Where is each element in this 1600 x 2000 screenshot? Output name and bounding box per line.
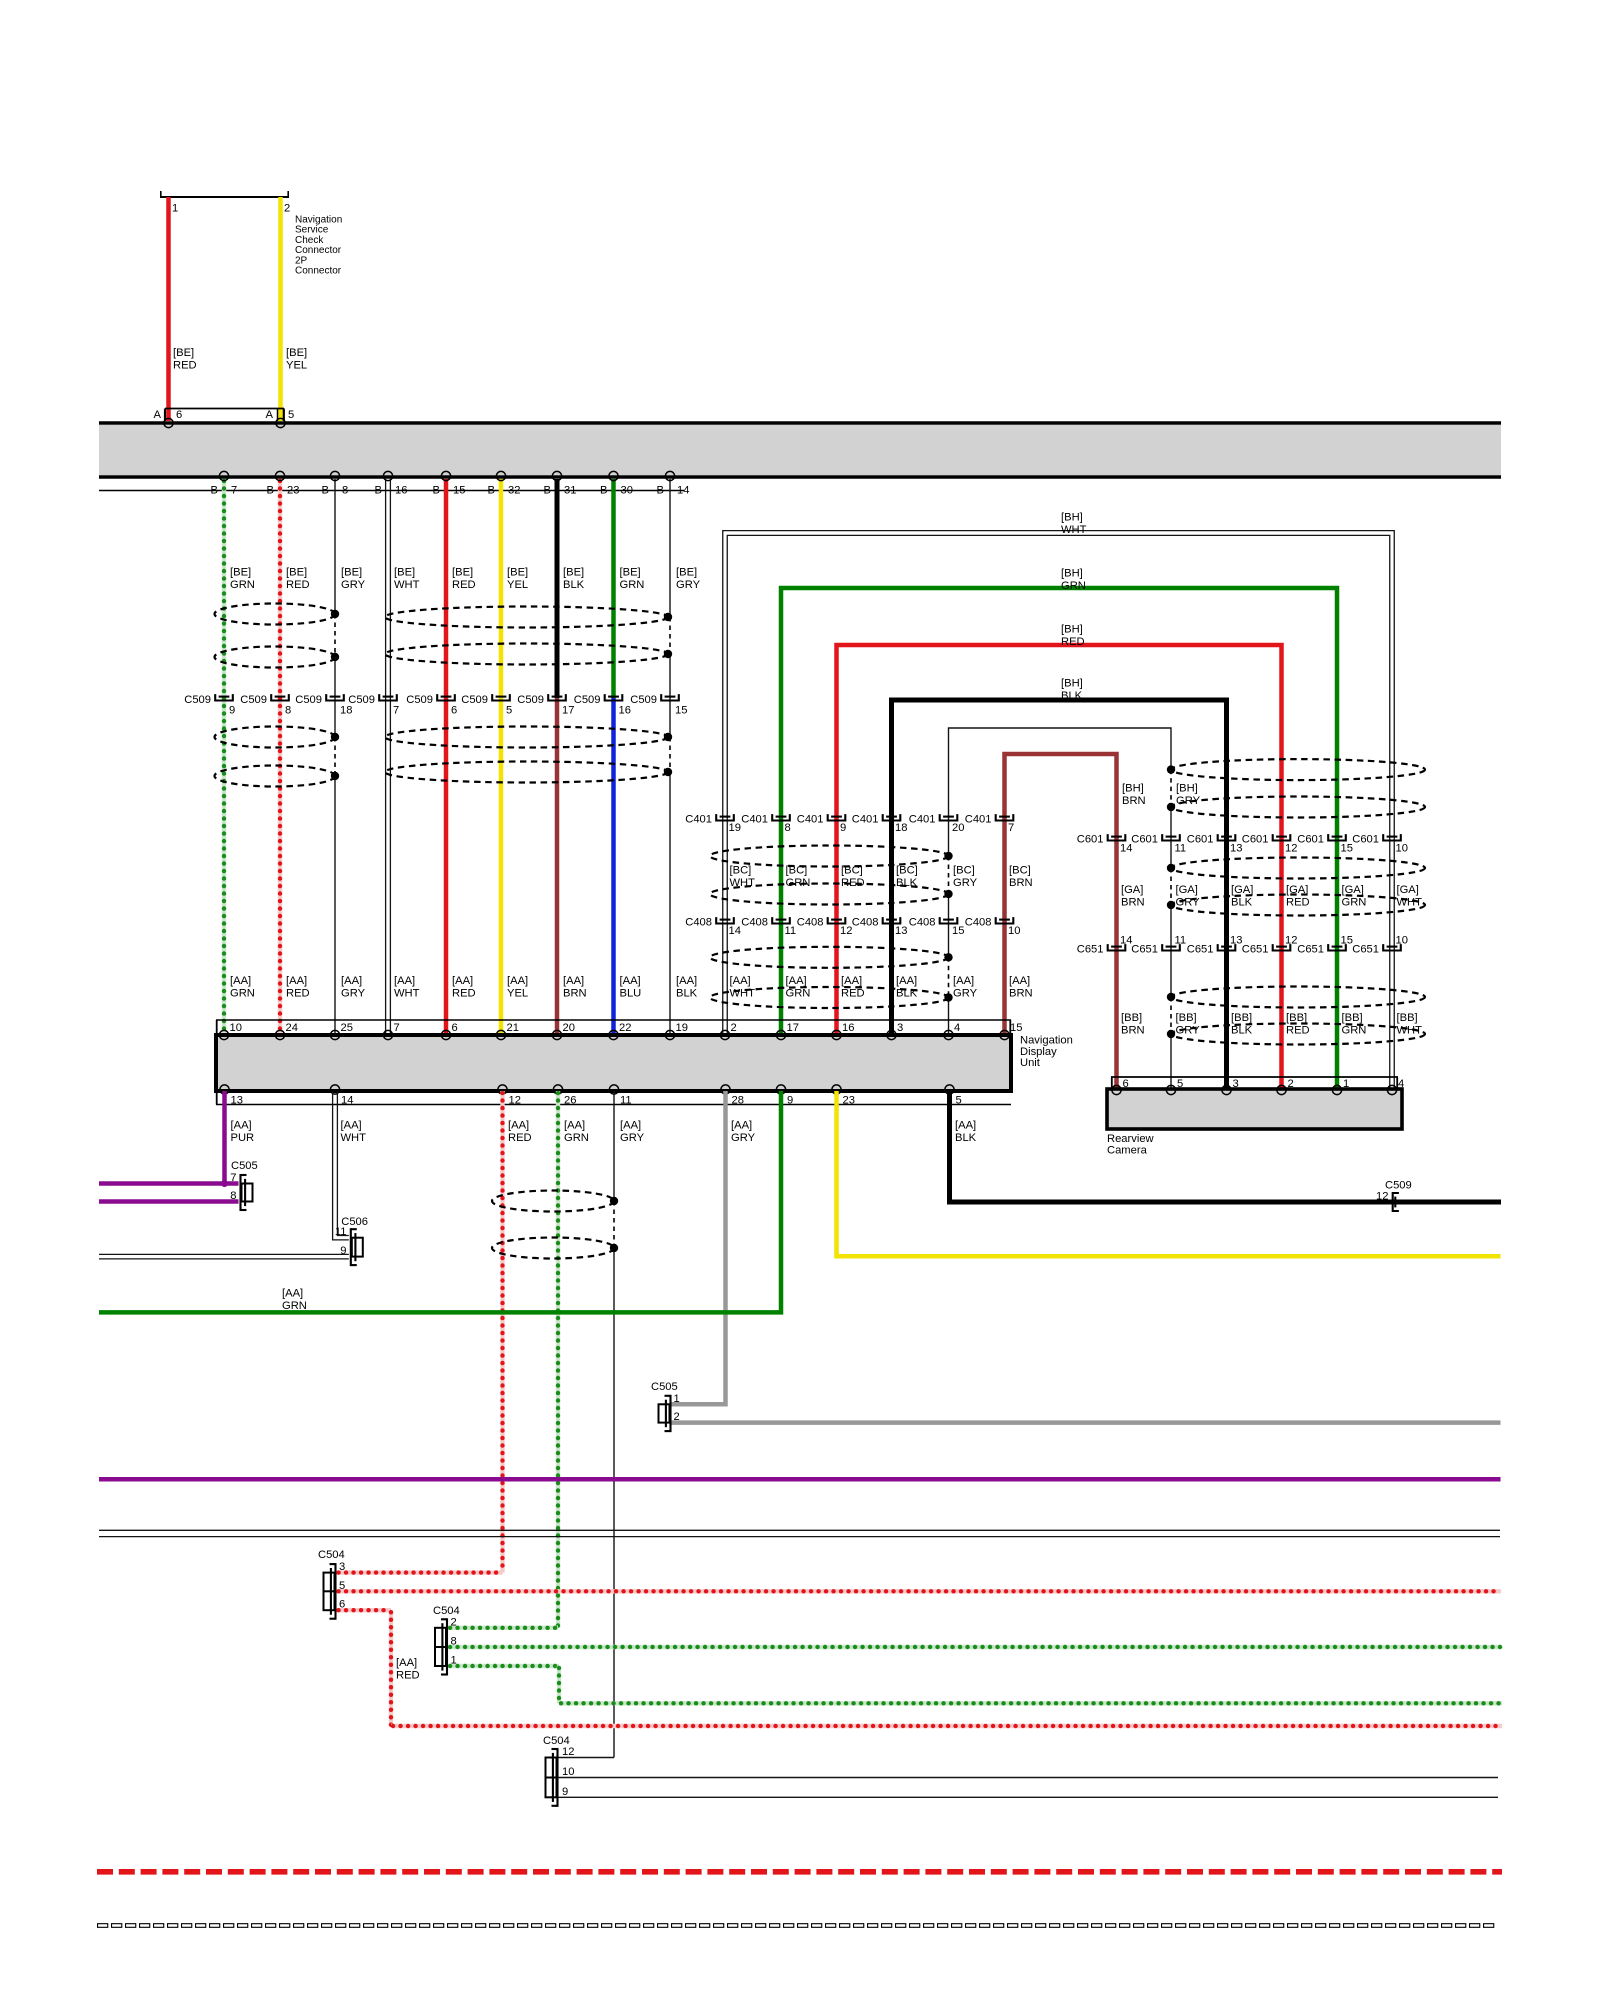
svg-text:RED: RED: [508, 1132, 532, 1144]
svg-text:GRY: GRY: [620, 1132, 645, 1144]
svg-text:24: 24: [286, 1022, 298, 1034]
svg-text:C601: C601: [1242, 834, 1269, 846]
svg-text:C504: C504: [433, 1605, 460, 1617]
svg-text:B: B: [488, 485, 495, 497]
svg-text:Camera: Camera: [1107, 1144, 1148, 1156]
svg-text:A: A: [266, 409, 274, 421]
svg-text:GRY: GRY: [1176, 897, 1201, 909]
svg-text:C505: C505: [651, 1381, 678, 1393]
svg-text:10: 10: [230, 1022, 242, 1034]
svg-text:RED: RED: [396, 1670, 420, 1682]
svg-text:7: 7: [394, 1022, 400, 1034]
svg-text:9: 9: [340, 1245, 346, 1257]
svg-text:13: 13: [1230, 935, 1242, 947]
svg-text:WHT: WHT: [1397, 1025, 1423, 1037]
svg-text:WHT: WHT: [394, 988, 420, 1000]
svg-text:13: 13: [895, 925, 907, 937]
svg-text:GRN: GRN: [786, 877, 811, 889]
svg-text:12: 12: [840, 925, 852, 937]
svg-text:C509: C509: [1385, 1179, 1412, 1191]
svg-text:[GA]: [GA]: [1286, 884, 1308, 896]
svg-text:C401: C401: [741, 814, 768, 826]
svg-text:9: 9: [787, 1095, 793, 1107]
svg-text:2: 2: [731, 1022, 737, 1034]
svg-text:20: 20: [563, 1022, 575, 1034]
svg-text:11: 11: [1175, 843, 1187, 855]
svg-text:31: 31: [564, 485, 576, 497]
svg-text:[AA]: [AA]: [341, 975, 362, 987]
svg-text:Navigation: Navigation: [1020, 1035, 1073, 1047]
svg-text:GRN: GRN: [230, 579, 255, 591]
svg-text:B: B: [267, 485, 274, 497]
svg-text:C601: C601: [1131, 834, 1158, 846]
svg-text:25: 25: [341, 1022, 353, 1034]
svg-text:C651: C651: [1131, 944, 1158, 956]
svg-text:[AA]: [AA]: [676, 975, 697, 987]
svg-text:[BE]: [BE]: [620, 567, 641, 579]
svg-text:20: 20: [952, 822, 964, 834]
svg-text:RED: RED: [1286, 1025, 1310, 1037]
svg-text:WHT: WHT: [341, 1132, 367, 1144]
svg-text:C401: C401: [685, 814, 712, 826]
svg-text:14: 14: [677, 485, 689, 497]
svg-text:5: 5: [956, 1095, 962, 1107]
svg-text:[BH]: [BH]: [1061, 568, 1083, 580]
svg-text:BRN: BRN: [1122, 795, 1146, 807]
svg-text:BLU: BLU: [620, 988, 642, 1000]
svg-text:[BC]: [BC]: [896, 865, 918, 877]
svg-text:GRY: GRY: [1176, 795, 1201, 807]
svg-text:10: 10: [562, 1766, 574, 1778]
svg-text:12: 12: [1285, 843, 1297, 855]
svg-text:28: 28: [732, 1095, 744, 1107]
svg-text:[AA]: [AA]: [731, 1120, 752, 1132]
svg-text:RED: RED: [1286, 897, 1310, 909]
svg-text:7: 7: [393, 705, 399, 717]
svg-text:GRY: GRY: [1176, 1025, 1201, 1037]
svg-text:BLK: BLK: [1231, 1025, 1253, 1037]
svg-text:YEL: YEL: [286, 360, 307, 372]
svg-text:B: B: [657, 485, 664, 497]
svg-text:[BE]: [BE]: [563, 567, 584, 579]
svg-text:13: 13: [1230, 843, 1242, 855]
svg-text:A: A: [154, 409, 162, 421]
svg-text:C509: C509: [461, 694, 488, 706]
svg-text:C601: C601: [1187, 834, 1214, 846]
svg-text:[BC]: [BC]: [730, 865, 752, 877]
svg-text:C408: C408: [741, 917, 768, 929]
svg-text:RED: RED: [286, 988, 310, 1000]
svg-text:C601: C601: [1352, 834, 1379, 846]
svg-text:C509: C509: [630, 694, 657, 706]
svg-text:16: 16: [842, 1022, 854, 1034]
svg-text:[AA]: [AA]: [341, 1120, 362, 1132]
svg-text:C408: C408: [797, 917, 824, 929]
svg-text:Unit: Unit: [1020, 1057, 1041, 1069]
svg-text:7: 7: [230, 1172, 236, 1184]
svg-text:C408: C408: [685, 917, 712, 929]
svg-text:C504: C504: [318, 1549, 345, 1561]
svg-text:GRN: GRN: [786, 988, 811, 1000]
svg-text:C401: C401: [852, 814, 879, 826]
svg-text:[BB]: [BB]: [1397, 1012, 1418, 1024]
svg-text:5: 5: [288, 409, 294, 421]
svg-text:[BC]: [BC]: [786, 865, 808, 877]
svg-text:11: 11: [335, 1226, 347, 1238]
svg-text:RED: RED: [452, 579, 476, 591]
svg-text:[AA]: [AA]: [396, 1657, 417, 1669]
svg-text:C509: C509: [348, 694, 375, 706]
svg-text:[AA]: [AA]: [955, 1120, 976, 1132]
svg-text:8: 8: [785, 822, 791, 834]
svg-text:B: B: [433, 485, 440, 497]
svg-text:8: 8: [230, 1190, 236, 1202]
svg-text:GRY: GRY: [341, 988, 366, 1000]
svg-text:Rearview: Rearview: [1107, 1133, 1155, 1145]
svg-text:[AA]: [AA]: [507, 975, 528, 987]
svg-text:[BE]: [BE]: [452, 567, 473, 579]
svg-text:[BC]: [BC]: [1009, 865, 1031, 877]
svg-text:B: B: [375, 485, 382, 497]
svg-text:GRN: GRN: [1342, 897, 1367, 909]
svg-text:[AA]: [AA]: [953, 975, 974, 987]
svg-text:15: 15: [1010, 1022, 1022, 1034]
svg-text:[AA]: [AA]: [394, 975, 415, 987]
svg-text:BRN: BRN: [1009, 988, 1033, 1000]
svg-text:BRN: BRN: [1009, 877, 1033, 889]
svg-text:B: B: [211, 485, 218, 497]
svg-text:C509: C509: [240, 694, 267, 706]
svg-text:30: 30: [621, 485, 633, 497]
svg-text:[AA]: [AA]: [1009, 975, 1030, 987]
svg-text:BRN: BRN: [1121, 1025, 1145, 1037]
svg-text:BRN: BRN: [563, 988, 587, 1000]
svg-text:[BB]: [BB]: [1121, 1012, 1142, 1024]
svg-text:[AA]: [AA]: [508, 1120, 529, 1132]
svg-text:10: 10: [1396, 843, 1408, 855]
svg-text:[BH]: [BH]: [1176, 783, 1198, 795]
svg-text:[BE]: [BE]: [173, 347, 194, 359]
svg-text:6: 6: [452, 1022, 458, 1034]
svg-text:C651: C651: [1352, 944, 1379, 956]
svg-text:12: 12: [1376, 1191, 1388, 1203]
svg-text:GRN: GRN: [620, 579, 645, 591]
svg-text:[BE]: [BE]: [676, 567, 697, 579]
svg-text:11: 11: [620, 1095, 632, 1107]
svg-text:GRY: GRY: [953, 988, 978, 1000]
svg-text:9: 9: [229, 705, 235, 717]
svg-text:23: 23: [843, 1095, 855, 1107]
svg-text:WHT: WHT: [730, 877, 756, 889]
svg-text:[GA]: [GA]: [1121, 884, 1143, 896]
svg-text:19: 19: [676, 1022, 688, 1034]
svg-text:[BC]: [BC]: [841, 865, 863, 877]
svg-text:6: 6: [451, 705, 457, 717]
svg-text:3: 3: [897, 1022, 903, 1034]
svg-text:B: B: [544, 485, 551, 497]
svg-text:RED: RED: [286, 579, 310, 591]
svg-text:[AA]: [AA]: [282, 1287, 303, 1299]
svg-text:17: 17: [562, 705, 574, 717]
svg-text:BLK: BLK: [955, 1132, 977, 1144]
svg-text:[AA]: [AA]: [230, 975, 251, 987]
svg-text:[AA]: [AA]: [896, 975, 917, 987]
svg-text:[BB]: [BB]: [1176, 1012, 1197, 1024]
svg-text:GRY: GRY: [676, 579, 701, 591]
svg-text:C601: C601: [1077, 834, 1104, 846]
svg-text:12: 12: [509, 1095, 521, 1107]
svg-text:C401: C401: [909, 814, 936, 826]
svg-text:15: 15: [675, 705, 687, 717]
svg-text:11: 11: [785, 925, 797, 937]
svg-text:GRY: GRY: [341, 579, 366, 591]
svg-text:10: 10: [1008, 925, 1020, 937]
svg-text:GRN: GRN: [1342, 1025, 1367, 1037]
svg-text:10: 10: [1396, 935, 1408, 947]
svg-text:YEL: YEL: [507, 988, 528, 1000]
svg-text:15: 15: [952, 925, 964, 937]
svg-text:[AA]: [AA]: [564, 1120, 585, 1132]
svg-text:[AA]: [AA]: [563, 975, 584, 987]
svg-text:7: 7: [231, 485, 237, 497]
svg-text:[BB]: [BB]: [1231, 1012, 1252, 1024]
svg-text:[AA]: [AA]: [231, 1120, 252, 1132]
svg-text:WHT: WHT: [1061, 524, 1087, 536]
svg-text:GRN: GRN: [564, 1132, 589, 1144]
svg-text:18: 18: [340, 705, 352, 717]
svg-text:WHT: WHT: [394, 579, 420, 591]
svg-text:[BE]: [BE]: [394, 567, 415, 579]
svg-text:6: 6: [176, 409, 182, 421]
svg-text:C509: C509: [295, 694, 322, 706]
svg-text:1: 1: [172, 203, 178, 215]
svg-text:[BH]: [BH]: [1061, 624, 1083, 636]
svg-text:9: 9: [840, 822, 846, 834]
svg-text:BRN: BRN: [1121, 897, 1145, 909]
svg-text:C601: C601: [1297, 834, 1324, 846]
svg-text:B: B: [600, 485, 607, 497]
svg-text:[AA]: [AA]: [286, 975, 307, 987]
svg-text:RED: RED: [452, 988, 476, 1000]
svg-text:GRY: GRY: [731, 1132, 756, 1144]
svg-text:[AA]: [AA]: [841, 975, 862, 987]
svg-text:13: 13: [231, 1095, 243, 1107]
svg-text:BLK: BLK: [896, 877, 918, 889]
svg-text:[BB]: [BB]: [1286, 1012, 1307, 1024]
svg-text:[AA]: [AA]: [452, 975, 473, 987]
svg-text:17: 17: [787, 1022, 799, 1034]
svg-text:[BE]: [BE]: [507, 567, 528, 579]
svg-text:4: 4: [954, 1022, 960, 1034]
svg-text:B: B: [322, 485, 329, 497]
svg-text:1: 1: [674, 1393, 680, 1405]
svg-text:2: 2: [674, 1411, 680, 1423]
svg-text:C651: C651: [1077, 944, 1104, 956]
svg-text:RED: RED: [841, 877, 865, 889]
svg-text:RED: RED: [1061, 636, 1085, 648]
svg-text:[BE]: [BE]: [286, 567, 307, 579]
svg-text:BLK: BLK: [896, 988, 918, 1000]
svg-text:15: 15: [453, 485, 465, 497]
svg-text:[AA]: [AA]: [620, 975, 641, 987]
svg-text:[BH]: [BH]: [1122, 783, 1144, 795]
svg-text:C509: C509: [184, 694, 211, 706]
svg-text:C509: C509: [406, 694, 433, 706]
svg-text:C505: C505: [231, 1160, 258, 1172]
svg-text:GRN: GRN: [282, 1300, 307, 1312]
svg-text:C408: C408: [909, 917, 936, 929]
svg-text:RED: RED: [173, 360, 197, 372]
svg-text:[AA]: [AA]: [730, 975, 751, 987]
svg-text:8: 8: [285, 705, 291, 717]
svg-text:11: 11: [1175, 935, 1187, 947]
svg-text:C408: C408: [852, 917, 879, 929]
svg-text:WHT: WHT: [730, 988, 756, 1000]
svg-text:26: 26: [564, 1095, 576, 1107]
svg-text:[BE]: [BE]: [230, 567, 251, 579]
svg-text:GRY: GRY: [953, 877, 978, 889]
svg-text:C401: C401: [797, 814, 824, 826]
svg-text:9: 9: [562, 1786, 568, 1798]
svg-text:[BH]: [BH]: [1061, 512, 1083, 524]
svg-text:C401: C401: [965, 814, 992, 826]
svg-text:BLK: BLK: [1231, 897, 1253, 909]
svg-text:16: 16: [619, 705, 631, 717]
svg-text:[BB]: [BB]: [1342, 1012, 1363, 1024]
svg-text:BLK: BLK: [563, 579, 585, 591]
svg-text:5: 5: [506, 705, 512, 717]
svg-text:22: 22: [619, 1022, 631, 1034]
svg-text:15: 15: [1341, 843, 1353, 855]
svg-text:8: 8: [342, 485, 348, 497]
svg-text:15: 15: [1341, 935, 1353, 947]
svg-text:[AA]: [AA]: [620, 1120, 641, 1132]
svg-text:2: 2: [284, 203, 290, 215]
svg-text:C651: C651: [1297, 944, 1324, 956]
svg-text:GRN: GRN: [1061, 580, 1086, 592]
svg-text:32: 32: [508, 485, 520, 497]
svg-text:[BC]: [BC]: [953, 865, 975, 877]
svg-text:BLK: BLK: [676, 988, 698, 1000]
svg-text:[GA]: [GA]: [1231, 884, 1253, 896]
svg-text:21: 21: [507, 1022, 519, 1034]
svg-text:14: 14: [729, 925, 741, 937]
svg-text:[BH]: [BH]: [1061, 678, 1083, 690]
svg-text:RED: RED: [841, 988, 865, 1000]
svg-text:[GA]: [GA]: [1342, 884, 1364, 896]
svg-text:[GA]: [GA]: [1397, 884, 1419, 896]
svg-text:18: 18: [895, 822, 907, 834]
svg-text:C509: C509: [517, 694, 544, 706]
svg-text:[BE]: [BE]: [341, 567, 362, 579]
svg-text:[GA]: [GA]: [1176, 884, 1198, 896]
svg-text:YEL: YEL: [507, 579, 528, 591]
svg-text:GRN: GRN: [230, 988, 255, 1000]
svg-text:C509: C509: [574, 694, 601, 706]
svg-text:[BE]: [BE]: [286, 347, 307, 359]
svg-text:[AA]: [AA]: [786, 975, 807, 987]
svg-text:12: 12: [1285, 935, 1297, 947]
svg-text:19: 19: [729, 822, 741, 834]
svg-text:WHT: WHT: [1397, 897, 1423, 909]
svg-text:16: 16: [395, 485, 407, 497]
svg-text:C651: C651: [1187, 944, 1214, 956]
svg-text:PUR: PUR: [231, 1132, 255, 1144]
svg-text:C408: C408: [965, 917, 992, 929]
svg-text:Connector: Connector: [295, 266, 342, 277]
svg-text:12: 12: [562, 1746, 574, 1758]
svg-text:BLK: BLK: [1061, 690, 1083, 702]
svg-text:14: 14: [341, 1095, 353, 1107]
svg-text:Display: Display: [1020, 1046, 1057, 1058]
svg-text:C651: C651: [1242, 944, 1269, 956]
svg-text:7: 7: [1008, 822, 1014, 834]
svg-text:23: 23: [287, 485, 299, 497]
